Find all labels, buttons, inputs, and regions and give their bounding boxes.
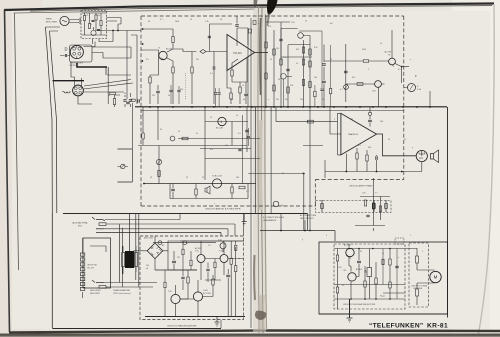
wire mid v x232 <box>231 122 233 146</box>
svg-text:CIRCUITO AMPLIF. B.F. REG./RI: CIRCUITO AMPLIF. B.F. REG./RIPR. <box>205 208 241 211</box>
resistor R52 <box>363 60 369 62</box>
svg-text:AC 588: AC 588 <box>385 51 391 54</box>
fold ink blob tail <box>267 13 271 26</box>
head H2 pole 3 <box>74 91 77 94</box>
resistor R41 <box>373 204 376 209</box>
dotted linkage <box>185 73 187 99</box>
svg-text:1: 1 <box>220 120 222 124</box>
capacitor C5 <box>129 100 132 101</box>
svg-text:CIRCUITO RADDRIZZATORE: CIRCUITO RADDRIZZATORE <box>167 325 197 328</box>
wire h y44 <box>288 44 310 46</box>
volume pot diamond <box>200 50 206 54</box>
wire h y22 <box>266 21 291 23</box>
jack line 4 <box>96 233 221 237</box>
wire transformer top <box>129 213 131 251</box>
wire U1 out <box>255 52 269 54</box>
cable head2 heavy <box>53 80 85 82</box>
wire T15 <box>281 29 292 108</box>
bridge diode 4 <box>157 253 159 255</box>
capacitor C34 <box>320 89 323 90</box>
section left edge <box>51 213 53 328</box>
svg-text:“TELEFUNKEN”: “TELEFUNKEN” <box>369 323 424 330</box>
resistor R1 <box>83 16 85 21</box>
svg-text:100k: 100k <box>175 21 179 23</box>
capacitor C23 <box>172 261 176 263</box>
resistor R27 <box>309 61 311 67</box>
wire h y280b <box>205 279 221 281</box>
capacitor C2 <box>97 29 100 30</box>
connector pin 8 <box>80 287 84 290</box>
svg-text:TAA300 B: TAA300 B <box>348 133 358 136</box>
wire C34 <box>321 31 323 107</box>
resistor R51 <box>158 171 160 177</box>
wire v x271 <box>270 107 272 214</box>
svg-text:470: 470 <box>296 49 299 51</box>
wire motor leads <box>405 248 427 305</box>
jack battery line 3 <box>104 229 228 236</box>
wire stage1 to pot <box>173 49 197 52</box>
junction motor dots <box>348 248 350 250</box>
head H1 <box>70 45 83 58</box>
shielded cable head1 <box>77 63 107 67</box>
connector pin 2 <box>80 258 84 261</box>
section bottom edge <box>52 328 221 330</box>
jack lower line 2 <box>106 286 153 288</box>
svg-text:(6): (6) <box>281 205 284 207</box>
wire v x159 <box>158 146 160 184</box>
svg-text:KR-81: KR-81 <box>427 323 448 330</box>
connector column line <box>82 238 84 298</box>
wire long left 2 <box>50 31 57 213</box>
svg-text:5k: 5k <box>404 139 406 141</box>
resistor R55 <box>214 262 216 268</box>
wire h y173 <box>248 174 303 231</box>
resistor R44 <box>336 287 338 293</box>
wire R11 <box>239 82 241 104</box>
bridge diode 2 <box>157 247 162 252</box>
svg-text:100: 100 <box>314 77 317 79</box>
wire R53 <box>182 241 184 270</box>
page top edge shadow <box>30 6 492 12</box>
cable end doubles <box>106 67 108 75</box>
paper lower-left tint <box>0 290 120 337</box>
wire v x255 <box>255 107 257 213</box>
svg-text:ELECTRET: ELECTRET <box>46 21 58 23</box>
svg-text:7.65: 7.65 <box>218 240 222 242</box>
transistor T2 BC149 <box>159 51 167 59</box>
wire v x281 <box>280 22 282 107</box>
head H1 pole 2 <box>78 47 81 50</box>
resistor R37 <box>212 279 214 285</box>
transistor T4 BC148 <box>212 179 221 188</box>
wire C9 <box>245 82 247 104</box>
svg-text:1k: 1k <box>380 43 382 45</box>
junction J3 <box>345 171 347 173</box>
head H1 pole 4 <box>78 52 81 55</box>
resistor R26 <box>302 59 304 65</box>
svg-text:1.2k: 1.2k <box>283 57 286 59</box>
svg-text:50: 50 <box>124 93 126 95</box>
wire out down <box>421 150 423 156</box>
svg-text:TAA 310: TAA 310 <box>233 52 242 55</box>
svg-text:7.661: 7.661 <box>203 290 208 292</box>
jack contact lower 2 <box>99 286 106 289</box>
capacitor C29 <box>138 99 140 103</box>
wire v x137 <box>131 35 137 104</box>
svg-text:y: y <box>302 239 303 241</box>
wire C25 <box>356 249 359 277</box>
wire motor M leads <box>427 270 435 283</box>
svg-text:5: 5 <box>368 69 369 71</box>
svg-text:100: 100 <box>236 177 239 179</box>
svg-text:REG./RIPR.: REG./RIPR. <box>90 293 101 295</box>
wire motor box bottom link <box>349 299 351 318</box>
trimmer P2 arrow <box>157 160 161 165</box>
fold dark streak upper <box>259 18 262 95</box>
wire mic to oscillator <box>69 20 79 23</box>
head H1 pole 1 <box>73 47 76 50</box>
transistor T11 <box>193 292 202 301</box>
wire v x288 <box>287 45 289 107</box>
svg-text:35: 35 <box>186 243 188 245</box>
capacitor C24 <box>226 275 230 277</box>
wire head2 right <box>83 80 133 93</box>
jack battery line 1 <box>105 213 180 220</box>
switch circle S3 <box>273 201 279 207</box>
resistor R8 <box>149 77 151 83</box>
resistor R31 <box>356 153 358 159</box>
wire net box <box>355 178 390 226</box>
transistor T15 <box>281 74 287 80</box>
switch S2 lever <box>121 164 125 169</box>
wire v x118 <box>118 24 121 31</box>
wire v x310 <box>309 36 311 108</box>
fold crease line 2 <box>261 6 263 333</box>
svg-text:1M: 1M <box>276 99 279 101</box>
connector pin 3 <box>80 263 84 266</box>
wire pot to amp <box>206 51 227 53</box>
wire C19 <box>369 107 371 127</box>
wire stub top-left <box>46 27 61 31</box>
wire R59 <box>314 85 316 107</box>
loudspeaker small symbol <box>205 186 210 194</box>
junction J-in2 <box>142 43 144 45</box>
page left edge <box>5 10 10 332</box>
svg-text:4.7: 4.7 <box>246 191 249 193</box>
svg-text:CANCELL.OSCILL.: CANCELL.OSCILL. <box>82 8 100 11</box>
head H1 gap <box>76 45 78 58</box>
svg-text:0.1: 0.1 <box>340 89 343 91</box>
junction J-dash1 <box>142 60 144 62</box>
wire mid h y122 <box>205 121 248 123</box>
svg-text:0.5: 0.5 <box>398 69 401 71</box>
resistor R18 <box>265 42 267 48</box>
capacitor C25 <box>357 261 361 263</box>
wire U2 out <box>377 134 417 156</box>
capacitor C17 <box>322 81 326 83</box>
svg-text:ALTOP. 8Ω: ALTOP. 8Ω <box>88 264 98 267</box>
capacitor C32 <box>214 93 217 94</box>
svg-text:4n7: 4n7 <box>330 23 333 25</box>
motor sub-box dashed <box>409 243 429 307</box>
wire R43 R44 <box>337 249 339 310</box>
svg-text:500: 500 <box>146 265 149 267</box>
wire T5 <box>281 29 310 36</box>
wire speaker box inner <box>90 246 106 252</box>
svg-text:1.65: 1.65 <box>362 193 366 195</box>
wire under U2 <box>346 148 376 172</box>
resistor R45 <box>364 281 366 287</box>
svg-text:25: 25 <box>210 117 212 119</box>
svg-text:47: 47 <box>186 177 188 179</box>
svg-text:25: 25 <box>302 173 304 175</box>
wire net down <box>373 228 375 231</box>
svg-text:AC132: AC132 <box>195 247 201 250</box>
motor inner box dashed <box>334 244 405 309</box>
rectifier bottom bus <box>145 316 245 318</box>
fold lower smudge <box>258 295 265 330</box>
oscillator wires <box>82 13 106 35</box>
svg-text:100: 100 <box>380 121 383 123</box>
wire v x266 <box>265 16 267 107</box>
capacitor C6 <box>156 91 160 93</box>
svg-text:25k: 25k <box>152 95 155 97</box>
wire h y148 <box>200 148 251 150</box>
svg-text:25: 25 <box>178 131 180 133</box>
wire v x131 <box>130 47 132 58</box>
resistor R9 <box>191 67 193 73</box>
resistor R25 <box>309 49 311 55</box>
svg-text:125: 125 <box>177 257 180 259</box>
svg-text:47: 47 <box>360 251 362 253</box>
svg-text:22k: 22k <box>97 15 100 17</box>
jack battery contact 2 <box>99 223 106 226</box>
wire R12 <box>227 66 231 104</box>
wire R36 R37 <box>180 270 213 299</box>
wire x325 v <box>324 160 326 178</box>
transistor T7 circled-E <box>375 81 382 88</box>
wire head2 up <box>71 62 82 87</box>
svg-text:1.2k: 1.2k <box>205 21 209 23</box>
resistor R2 <box>88 24 90 29</box>
svg-text:1k: 1k <box>90 24 92 26</box>
transistor T6 arrow <box>390 64 395 67</box>
svg-text:2k: 2k <box>270 59 272 61</box>
wire long left 1 <box>46 27 53 213</box>
resistor R60 <box>307 120 313 123</box>
resistor R39 <box>235 266 237 272</box>
wire C7 <box>213 52 215 105</box>
wire v x113 <box>112 31 114 42</box>
wire under bus left <box>143 107 247 180</box>
wire h y270b <box>168 269 197 271</box>
bottom band lighter strip <box>0 336 500 337</box>
wire meter <box>402 67 408 88</box>
resistor R13 <box>142 133 144 139</box>
wire R54 <box>190 251 192 270</box>
resistor R38 <box>230 258 232 264</box>
svg-text:AC 153: AC 153 <box>344 244 352 247</box>
small dashed box posts <box>316 201 392 213</box>
svg-text:1k: 1k <box>296 63 298 65</box>
output section border right <box>447 107 449 318</box>
wire U1 top bias <box>237 28 248 46</box>
motor M1 circle <box>430 271 441 282</box>
wire T13 T14 <box>349 244 351 299</box>
svg-text:1n: 1n <box>322 99 324 101</box>
resistor R4 <box>100 21 102 26</box>
junction J-in1 <box>142 28 144 30</box>
capacitor C35 <box>395 266 398 268</box>
connector pin 6 <box>80 278 84 281</box>
wire R55 <box>214 259 216 281</box>
svg-text:220k: 220k <box>362 49 366 51</box>
wire mid bus y107 <box>135 106 447 108</box>
bridge diode 1 <box>151 247 153 250</box>
wire y198 <box>170 198 248 200</box>
wire h y61 to T6 <box>324 44 389 102</box>
ground G3 <box>242 222 247 226</box>
svg-text:10k: 10k <box>276 48 279 50</box>
wire motor box top bus <box>334 248 405 250</box>
wire C28 <box>182 270 184 290</box>
oscillator box dashed <box>81 11 107 39</box>
capacitor C31 <box>177 90 180 91</box>
capacitor C1 <box>92 20 95 21</box>
wire motor mid bus <box>334 285 405 294</box>
svg-text:25: 25 <box>388 139 390 141</box>
capacitor C10 <box>126 102 130 104</box>
capacitor C16 <box>322 64 326 65</box>
capacitor C9 <box>244 94 248 96</box>
wire v x430 top <box>429 91 431 107</box>
connector pin 7 <box>80 282 84 285</box>
resistor R3 <box>95 15 97 20</box>
wire T2 base-bias <box>150 50 159 75</box>
wire head2 down <box>78 97 92 104</box>
resistor R47 <box>389 259 391 265</box>
svg-text:MIKR.: MIKR. <box>46 19 52 21</box>
resistor R36 <box>187 277 189 283</box>
head H1 enclosure <box>70 45 93 62</box>
svg-text:7.65: 7.65 <box>168 291 172 293</box>
component on fold 2 <box>249 29 252 33</box>
wire R10 top <box>232 59 238 70</box>
svg-text:x: x <box>214 203 215 205</box>
svg-text:47: 47 <box>282 173 284 175</box>
wire h y84 to T7 <box>346 83 375 85</box>
svg-text:1k2: 1k2 <box>225 145 228 147</box>
resistor R59 <box>314 91 316 97</box>
svg-text:T4 BC 148: T4 BC 148 <box>212 176 222 178</box>
svg-text:10: 10 <box>150 177 152 179</box>
wire v x127 <box>126 31 128 100</box>
svg-text:JACK PRES: JACK PRES <box>90 289 101 292</box>
amplifier section box dashed <box>141 16 404 206</box>
transistor T8 AC <box>197 255 205 263</box>
transformer TR1 core <box>125 251 134 268</box>
resistor R61 <box>382 259 384 265</box>
svg-text:7.7: 7.7 <box>375 193 378 195</box>
svg-text:8.2k: 8.2k <box>314 47 318 49</box>
resistor R40 <box>321 204 324 209</box>
svg-text:CIRCUITO REGOLAZIONE MOTORE: CIRCUITO REGOLAZIONE MOTORE <box>343 303 376 306</box>
mic terminal 1 <box>79 19 81 21</box>
second bus line y110 <box>141 110 404 112</box>
junction bus dots <box>149 106 151 108</box>
wire y170 under <box>325 162 422 172</box>
svg-text:CIRCUITO AMPLIF. FINALE: CIRCUITO AMPLIF. FINALE <box>349 185 374 188</box>
resistor R20 <box>273 49 275 55</box>
fold dark stain bottom <box>255 311 266 320</box>
wire v x251 <box>250 18 252 328</box>
resistor R19 <box>265 73 267 79</box>
capacitor C3 <box>65 54 66 57</box>
svg-text:T.65: T.65 <box>372 91 376 93</box>
wire C27 <box>207 263 209 283</box>
svg-text:T.65: T.65 <box>338 267 342 269</box>
resistor R48 <box>389 282 391 288</box>
wire C24 <box>227 269 229 316</box>
wire x281 v <box>280 213 282 231</box>
transistor T12 <box>220 243 226 249</box>
svg-text:EST.: EST. <box>78 226 83 228</box>
svg-text:1k: 1k <box>242 85 244 87</box>
wire motor extra v2 <box>396 249 398 300</box>
wire v x276 <box>275 107 277 122</box>
svg-text:125: 125 <box>350 119 353 121</box>
capacitor C4 <box>123 100 126 101</box>
resistor R46 <box>375 278 377 284</box>
svg-text:40: 40 <box>243 99 245 101</box>
wire head1 left <box>60 55 70 57</box>
junction J1 <box>112 30 114 32</box>
wire R8 down <box>149 75 151 104</box>
svg-text:4.7k: 4.7k <box>268 26 271 28</box>
wire S2 stubs <box>118 166 129 168</box>
resistor R24 <box>302 47 304 53</box>
earphone jack prongs <box>419 153 425 159</box>
fold dark streak mid-low <box>253 255 256 300</box>
wire oscillator down <box>93 39 114 44</box>
wire C22 <box>247 128 249 146</box>
svg-text:50: 50 <box>220 19 222 21</box>
svg-text:B30 C350: B30 C350 <box>144 238 154 240</box>
svg-text:D: D <box>65 47 68 52</box>
wire x305 v <box>304 220 306 231</box>
connector pin 1 <box>80 253 84 256</box>
resistor R14 <box>182 137 188 140</box>
wire U2 in <box>330 107 341 155</box>
capacitor C21 <box>366 215 369 217</box>
wire R45 R46 <box>365 262 376 299</box>
wire v x248 <box>247 28 249 107</box>
wire right links <box>236 213 244 259</box>
svg-text:LIBERAMENTE: LIBERAMENTE <box>263 219 277 222</box>
earphone E1 <box>416 150 427 161</box>
svg-text:5: 5 <box>326 235 327 237</box>
wire C8 up <box>236 16 238 24</box>
wire v x303 <box>303 40 305 107</box>
svg-text:5: 5 <box>422 251 423 253</box>
capacitor C28 <box>181 277 184 279</box>
wire C31 <box>178 86 180 104</box>
wire x307 down <box>307 214 309 231</box>
wire R15 <box>195 184 197 199</box>
wire P1 <box>368 249 370 300</box>
capacitor C27 <box>206 269 209 271</box>
wire R38 R39 <box>231 241 236 316</box>
